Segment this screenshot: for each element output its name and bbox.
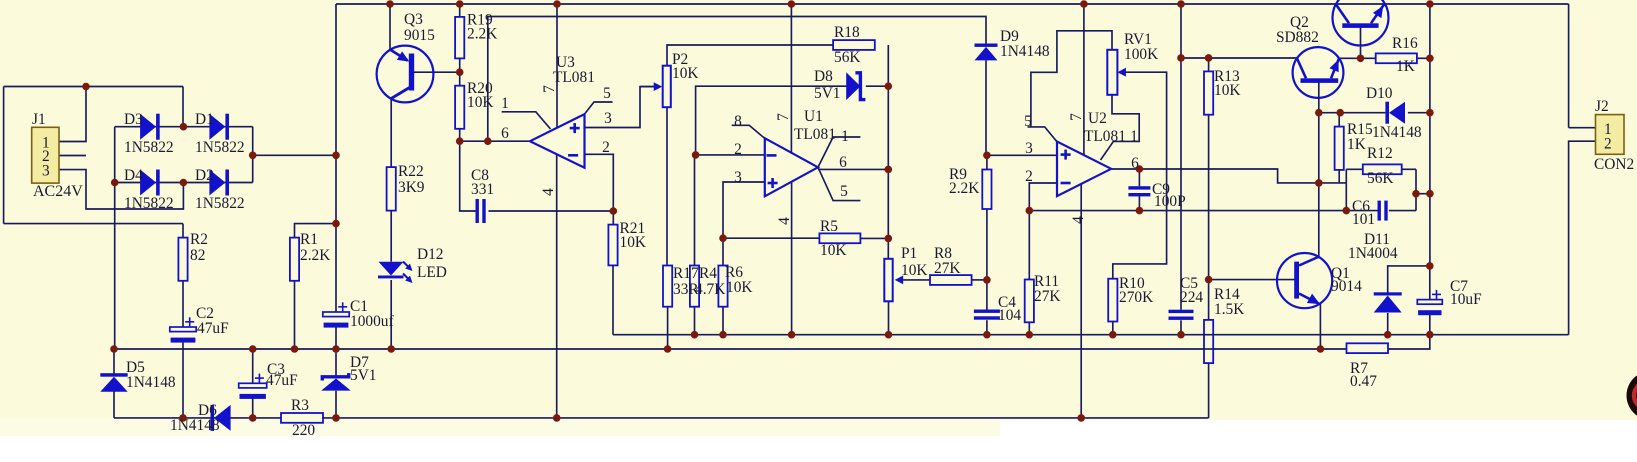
svg-text:1000uf: 1000uf — [350, 313, 394, 330]
wire Q2low base column — [1318, 82, 1320, 258]
svg-text:8: 8 — [734, 113, 742, 130]
wire R9 top — [986, 155, 988, 169]
wire R12C6 right node — [1415, 169, 1417, 210]
svg-text:9014: 9014 — [1331, 278, 1362, 295]
svg-text:3: 3 — [42, 163, 50, 180]
resistor R2 — [178, 238, 187, 281]
svg-text:224: 224 — [1180, 289, 1203, 306]
svg-text:47uF: 47uF — [266, 372, 298, 389]
wire C3 bottom — [252, 397, 254, 418]
diode D6 — [211, 405, 231, 431]
wire C5 bottom — [1180, 320, 1182, 334]
capacitor C3 — [239, 374, 267, 399]
svg-text:3: 3 — [734, 169, 742, 186]
svg-text:56K: 56K — [1367, 170, 1394, 187]
svg-text:4: 4 — [540, 188, 557, 196]
wire D7 top — [335, 349, 337, 376]
svg-text:P1: P1 — [901, 245, 917, 262]
wire Q1 emitter lead — [1319, 303, 1321, 350]
wire C5 column — [1180, 4, 1182, 310]
wire R13 top lead — [1208, 58, 1210, 71]
wire J2 pin2 stub — [1569, 141, 1596, 335]
wire R11 bottom — [1028, 322, 1030, 334]
wire Q3 collector — [390, 98, 392, 167]
svg-text:D8: D8 — [814, 68, 833, 85]
svg-text:TL081: TL081 — [794, 126, 836, 143]
resistor R16 — [1376, 53, 1417, 63]
resistor R11 — [1025, 280, 1034, 323]
svg-text:4: 4 — [776, 217, 793, 225]
potentiometer RV1 — [1107, 50, 1126, 95]
resistor R4 — [690, 266, 699, 307]
wire D9 bottom — [985, 60, 987, 155]
wire output column — [1429, 4, 1431, 266]
wire R19-R20 join — [459, 58, 461, 85]
wire R1 branch — [295, 224, 337, 238]
wire R13-R14 column — [1208, 115, 1210, 320]
resistor R10 — [1108, 279, 1117, 322]
svg-text:R12: R12 — [1367, 145, 1393, 162]
capacitor C2 — [170, 317, 196, 342]
wire R12 left — [1346, 168, 1363, 170]
svg-text:7: 7 — [541, 85, 558, 93]
svg-text:331: 331 — [471, 181, 494, 198]
svg-text:7: 7 — [775, 113, 792, 121]
svg-text:D2: D2 — [195, 167, 214, 184]
wire Q3 base — [414, 71, 460, 73]
wire U1 pin5 stub — [818, 167, 860, 200]
svg-text:1N4148: 1N4148 — [1372, 124, 1422, 141]
wire R5 right — [860, 237, 888, 239]
wire U3 pin1 stub — [502, 112, 551, 129]
svg-text:Q3: Q3 — [404, 11, 423, 28]
svg-text:82: 82 — [190, 247, 205, 264]
svg-text:27K: 27K — [934, 260, 961, 277]
wire C7 bottom lead — [1429, 314, 1431, 335]
wire R14 bottom — [1208, 363, 1210, 418]
resistor R6 — [718, 266, 727, 307]
wire Q3 emitter — [389, 4, 391, 50]
svg-text:1N5822: 1N5822 — [124, 139, 174, 156]
resistor R17 — [663, 266, 672, 307]
svg-text:1N5822: 1N5822 — [195, 195, 245, 212]
svg-text:LED: LED — [417, 264, 447, 281]
resistor R12 — [1363, 164, 1402, 174]
svg-text:R16: R16 — [1392, 35, 1418, 52]
resistor R21 — [608, 225, 617, 266]
wire R2 top branch — [4, 223, 183, 225]
wire AC1 drop — [182, 87, 184, 127]
wire bridge output corner — [252, 127, 254, 183]
svg-text:56K: 56K — [834, 49, 861, 66]
op-amp U3 — [530, 114, 585, 168]
capacitor C9 — [1128, 186, 1150, 196]
diode D3 — [140, 114, 160, 140]
svg-text:10K: 10K — [620, 234, 647, 251]
svg-text:TL081: TL081 — [1084, 128, 1126, 145]
svg-text:2: 2 — [734, 141, 742, 158]
diode D2 — [209, 170, 229, 196]
wire D5 to bus2 — [113, 391, 115, 418]
wire R16 right — [1417, 57, 1430, 59]
wire U3 pin2 — [585, 154, 614, 224]
diode D5 — [100, 373, 127, 392]
wire C7 top lead — [1429, 266, 1431, 300]
svg-text:1N4148: 1N4148 — [170, 417, 220, 434]
transistor Q2 lower — [1293, 47, 1344, 98]
logo — [1627, 371, 1637, 420]
svg-text:4: 4 — [1070, 216, 1087, 224]
svg-text:1N4148: 1N4148 — [1000, 43, 1050, 60]
diode D7 zener — [321, 373, 351, 391]
resistor R3 — [281, 413, 323, 423]
svg-text:4.7K: 4.7K — [695, 281, 725, 298]
wire AC line top — [4, 86, 183, 88]
svg-text:R3: R3 — [291, 397, 309, 414]
wire U3 pin3 — [585, 87, 655, 128]
wire R18 column — [887, 45, 889, 259]
diode D1 — [209, 114, 229, 140]
svg-text:1K: 1K — [1347, 136, 1366, 153]
svg-text:27K: 27K — [1034, 288, 1061, 305]
wire Q2top base lead — [1360, 27, 1362, 58]
wire C8 right — [489, 210, 614, 212]
wire C4 bottom — [986, 320, 988, 335]
wire J1 pin1 column — [59, 87, 86, 142]
diode D8 zener — [846, 72, 865, 100]
wire D7 bottom — [335, 391, 337, 418]
resistor R5 — [819, 233, 860, 243]
svg-text:5V1: 5V1 — [350, 367, 377, 384]
wire U1 pin8 stub — [732, 125, 765, 138]
wire U2 pin3 node — [987, 154, 1057, 156]
svg-text:47uF: 47uF — [197, 320, 229, 337]
capacitor C7 — [1417, 290, 1442, 315]
wire D2 row — [183, 182, 252, 184]
transistor Q1 — [1277, 253, 1332, 308]
svg-text:2.2K: 2.2K — [949, 180, 979, 197]
svg-text:104: 104 — [998, 307, 1021, 324]
diode D11 — [1374, 292, 1402, 312]
svg-text:1N5822: 1N5822 — [124, 195, 174, 212]
svg-text:3: 3 — [604, 110, 612, 127]
wire W16 top link — [488, 17, 986, 142]
svg-text:R22: R22 — [398, 163, 424, 180]
wire bridge negative column — [114, 127, 116, 349]
svg-text:100K: 100K — [1124, 46, 1158, 63]
svg-text:1: 1 — [501, 95, 509, 112]
wire Q2low emitter link — [1339, 57, 1361, 59]
wire +V top rail — [336, 3, 1569, 5]
wire Q1 base — [1209, 279, 1295, 281]
svg-text:6: 6 — [501, 125, 509, 142]
svg-text:9015: 9015 — [404, 27, 435, 44]
wire D1 row — [183, 126, 252, 128]
wire left border — [3, 87, 5, 224]
wire U2 pin2 — [1029, 183, 1057, 211]
svg-text:220: 220 — [292, 422, 315, 439]
wire U1 pin4 — [791, 176, 793, 335]
wire R22 to LED — [390, 211, 392, 262]
resistor R9 — [982, 170, 991, 210]
svg-text:1N4148: 1N4148 — [126, 374, 176, 391]
svg-text:R17: R17 — [673, 265, 699, 282]
capacitor C5 — [1169, 310, 1194, 320]
capacitor C1 — [323, 302, 349, 327]
wire R20 bottom — [459, 129, 461, 141]
wire C3 top — [252, 349, 254, 383]
svg-text:7: 7 — [1068, 113, 1085, 121]
wire R10 bottom — [1112, 322, 1114, 335]
wire R11 top — [1028, 211, 1030, 280]
svg-text:2: 2 — [1025, 168, 1033, 185]
resistor R20 — [455, 86, 464, 129]
wire R12 right — [1402, 168, 1416, 170]
svg-text:10K: 10K — [726, 279, 753, 296]
svg-text:AC24V: AC24V — [33, 183, 83, 200]
svg-text:U2: U2 — [1088, 110, 1107, 127]
resistor R1 — [290, 238, 299, 281]
svg-text:R4: R4 — [699, 265, 717, 282]
svg-text:6: 6 — [839, 154, 847, 171]
svg-text:TL081: TL081 — [553, 69, 595, 86]
LED D12 — [378, 262, 413, 284]
wire bus after R7 — [1388, 335, 1430, 349]
wire feedback rail W334 — [613, 334, 1569, 336]
wire U1 pin7 — [790, 4, 792, 160]
resistor R13 — [1204, 71, 1213, 114]
wire C6 right — [1389, 210, 1416, 212]
svg-text:5: 5 — [1024, 113, 1032, 130]
wire P1 wiper tail — [903, 279, 930, 281]
wire negative bus — [114, 417, 1209, 419]
svg-text:D3: D3 — [124, 111, 143, 128]
svg-text:SD882: SD882 — [1276, 29, 1319, 46]
svg-text:100P: 100P — [1154, 193, 1186, 210]
svg-text:D10: D10 — [1366, 85, 1393, 102]
svg-text:10K: 10K — [672, 65, 699, 82]
wire D10 left — [1319, 112, 1386, 114]
svg-text:1N4004: 1N4004 — [1348, 245, 1398, 262]
svg-text:R1: R1 — [300, 231, 318, 248]
svg-text:J2: J2 — [1595, 98, 1609, 115]
wire C8 branch — [460, 141, 476, 211]
svg-text:R2: R2 — [190, 231, 208, 248]
wire U2 pin6 out — [1111, 169, 1346, 183]
wire R9 bottom — [986, 209, 988, 310]
resistor R14 — [1204, 320, 1213, 363]
svg-text:J1: J1 — [32, 111, 46, 128]
wire R19 top — [459, 4, 461, 17]
svg-text:R5: R5 — [820, 218, 838, 235]
wire R4 bottom — [694, 155, 696, 335]
wire R15 bottom — [1338, 170, 1340, 183]
wire D4 row — [115, 182, 184, 184]
svg-text:D4: D4 — [124, 167, 143, 184]
svg-text:5: 5 — [840, 183, 848, 200]
svg-text:D1: D1 — [195, 111, 214, 128]
connector J1 — [32, 127, 59, 183]
wire RV1 bottom to pin1 — [1101, 95, 1140, 160]
capacitor C4 — [974, 310, 1000, 320]
wire R17 bottom — [667, 307, 669, 349]
wire P2 bottom to R17 — [666, 107, 668, 265]
diode D9 — [975, 44, 998, 61]
svg-text:1K: 1K — [1396, 58, 1415, 75]
svg-text:1: 1 — [841, 128, 849, 145]
svg-text:1: 1 — [1130, 128, 1138, 145]
svg-text:6: 6 — [1131, 155, 1139, 172]
wire R16 left — [1361, 57, 1376, 59]
wire R12C6 left node — [1345, 169, 1347, 210]
wire D11 top — [1388, 266, 1430, 293]
wire U3 pin5 stub — [585, 102, 613, 114]
wire C9 top lead — [1138, 169, 1140, 186]
resistor R19 — [455, 17, 464, 59]
svg-text:2.2K: 2.2K — [467, 26, 497, 43]
diode D10 — [1385, 102, 1405, 124]
svg-text:2: 2 — [602, 139, 610, 156]
wire U2 pin5 to RV1 top — [1031, 31, 1112, 127]
wire U2 pin4 — [1080, 176, 1082, 418]
wire R21 bottom — [612, 265, 614, 334]
wire R13 branch — [1181, 57, 1297, 59]
wire U3 pin6 node — [460, 140, 532, 142]
wire J1 pin3 to bridge — [59, 170, 183, 209]
wire R15 top — [1338, 113, 1340, 127]
wire main column x336 — [335, 4, 337, 312]
wire D11 bottom — [1387, 313, 1389, 335]
svg-text:1.5K: 1.5K — [1214, 301, 1244, 318]
svg-text:1N5822: 1N5822 — [195, 139, 245, 156]
wire U3 pin4 — [556, 152, 558, 418]
wire U2 pin7 — [1083, 4, 1085, 162]
wire C9 bottom lead — [1138, 195, 1140, 211]
svg-text:3K9: 3K9 — [398, 179, 425, 196]
resistor R18 — [833, 40, 875, 50]
connector J2 — [1596, 115, 1625, 155]
resistor R8 — [930, 275, 972, 285]
wire W210 inverting rail — [1029, 210, 1377, 212]
wire P1 bottom — [888, 301, 890, 334]
wire P2 top — [667, 45, 833, 66]
wire D8 branch col — [696, 86, 847, 155]
wire W334 over R14 — [1203, 335, 1214, 349]
diode D4 — [140, 170, 160, 196]
wire U1 pin6 out — [818, 168, 888, 170]
capacitor C6 — [1378, 201, 1388, 221]
svg-text:270K: 270K — [1119, 289, 1153, 306]
svg-text:D12: D12 — [417, 246, 444, 263]
svg-text:U1: U1 — [804, 108, 823, 125]
svg-text:10K: 10K — [820, 242, 847, 259]
svg-text:101: 101 — [1352, 211, 1375, 228]
potentiometer P2 — [640, 66, 671, 108]
wire R5 left — [723, 237, 819, 239]
transistor Q3 — [377, 46, 434, 103]
resistor R7 — [1347, 343, 1389, 353]
wire D10 right — [1408, 112, 1430, 114]
resistor R22 — [387, 167, 396, 211]
wire mid rail — [253, 154, 336, 156]
transistor Q2 upper — [1333, 0, 1389, 46]
wire R8 right — [972, 279, 987, 281]
wire U1 pin1 stub — [818, 137, 860, 167]
wire R2-C2 column — [182, 224, 184, 327]
svg-text:0.47: 0.47 — [1350, 373, 1377, 390]
wire LED to ground — [390, 280, 392, 349]
svg-text:3: 3 — [1025, 140, 1033, 157]
wire RV1 wiper tail — [1113, 72, 1167, 279]
wire U2 pin5 path — [1028, 127, 1058, 142]
wire output branch — [1416, 193, 1430, 195]
wire U1 pin3 node — [723, 182, 765, 335]
wire C2 to bus2 — [182, 343, 184, 418]
svg-text:R18: R18 — [834, 24, 860, 41]
wire U1 pin2 node — [696, 154, 765, 156]
capacitor C8 — [476, 199, 486, 223]
svg-text:10K: 10K — [1214, 82, 1241, 99]
resistor R15 — [1335, 127, 1344, 170]
svg-text:5: 5 — [603, 85, 611, 102]
svg-text:2: 2 — [1604, 136, 1612, 153]
potentiometer P1 — [884, 259, 903, 302]
wire J1 pin2 stub — [59, 155, 86, 157]
wire J2 pin1 stub — [1569, 127, 1596, 129]
wire top rail right drop to J2 pin1 — [1568, 4, 1570, 128]
svg-text:10K: 10K — [901, 262, 928, 279]
svg-text:2.2K: 2.2K — [300, 247, 330, 264]
wire ground bus — [114, 348, 1347, 350]
svg-text:10uF: 10uF — [1450, 291, 1482, 308]
wire C1 bottom — [335, 327, 337, 349]
svg-text:5V1: 5V1 — [814, 85, 841, 102]
wire R1 bottom — [294, 281, 296, 349]
wire D3 row — [115, 126, 184, 128]
svg-text:10K: 10K — [467, 94, 494, 111]
op-amp U2 — [1057, 142, 1111, 197]
wire U3 pin7 — [556, 4, 558, 130]
op-amp U1 — [765, 138, 818, 196]
svg-text:CON2: CON2 — [1594, 156, 1634, 173]
wire D8 right — [866, 85, 889, 87]
wire D5 column — [113, 349, 115, 374]
